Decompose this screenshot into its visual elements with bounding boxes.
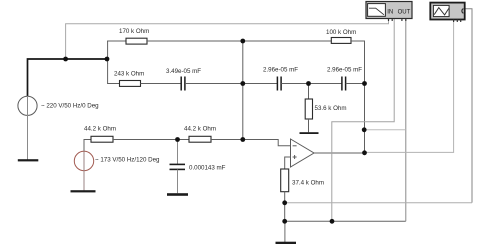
wire: Bode IN+ gray run to input bus	[66, 19, 389, 60]
svg-text:243 k Ohm: 243 k Ohm	[114, 71, 144, 78]
node C rail y139.5 x242.8	[240, 137, 245, 142]
wire: C4 bottom lead	[177, 170, 179, 194]
wire: C1 to C2	[185, 83, 277, 85]
wire: vertical node x=108 joining rails y41/y83.5	[107, 41, 109, 84]
wire: ground stub below rail	[284, 221, 286, 242]
svg-text:37.4 k Ohm: 37.4 k Ohm	[292, 179, 324, 186]
wire: 53.6k bottom lead	[308, 119, 310, 132]
wire: scope right terminal down	[465, 9, 472, 203]
node G output x364.5	[362, 150, 367, 155]
svg-text:44.2 k Ohm: 44.2 k Ohm	[184, 126, 216, 133]
wire: Bode OUT+ faint run to output node	[364, 129, 406, 131]
oscilloscope U3	[430, 3, 464, 22]
svg-text:0.000143 mF: 0.000143 mF	[189, 164, 226, 171]
node bus right	[105, 57, 110, 62]
svg-text:53.6 k Ohm: 53.6 k Ohm	[315, 105, 347, 112]
svg-text:~ 173 V/50 Hz/120 Deg: ~ 173 V/50 Hz/120 Deg	[95, 156, 160, 163]
wire: R6 to op-amp jog	[211, 140, 291, 146]
resistor R4 53.6 kOhm (vertical)	[305, 99, 312, 119]
wire: R7 bottom to ground rail	[284, 192, 286, 222]
ground G5	[276, 242, 297, 244]
svg-text:100 k Ohm: 100 k Ohm	[326, 29, 356, 36]
wire: C3 to feedback vertical	[346, 83, 365, 85]
wire: rail y=83.5 left	[107, 83, 119, 85]
wire: scope gray run to ground node	[285, 202, 472, 204]
wire: + input jog	[285, 157, 291, 169]
node J ground rail x284.7	[282, 219, 287, 224]
node F x364.5 y129.8	[362, 127, 367, 132]
svg-text:3.49e-05 mF: 3.49e-05 mF	[166, 68, 201, 75]
ground G3	[167, 193, 188, 196]
wire: rail y=83.5 to C1	[141, 83, 182, 85]
wire: vertical x=242.8	[242, 41, 244, 140]
resistor R2 100 kOhm	[331, 38, 351, 44]
svg-text:2.96e-05 mF: 2.96e-05 mF	[263, 66, 298, 73]
node D rail y83.5 x308.5	[306, 81, 311, 86]
capacitor C2 2.96e-05 mF	[276, 77, 278, 91]
wire: rail y=41 mid segment	[147, 40, 331, 42]
resistor R3 243 kOhm	[120, 81, 141, 87]
wire: V2 through source to ground	[83, 151, 85, 190]
op-amp U1	[291, 139, 315, 167]
node A rail y41 x242.8	[240, 39, 245, 44]
capacitor C3 2.96e-05 mF	[341, 77, 343, 91]
resistor R5 44.2 kOhm	[91, 136, 113, 142]
node bus-IN+	[63, 57, 68, 62]
wire: mid rail y=139.5 start corner from V2	[84, 140, 91, 152]
svg-text:2.96e-05 mF: 2.96e-05 mF	[327, 66, 362, 73]
svg-text:170 k Ohm: 170 k Ohm	[119, 28, 149, 35]
ground G1	[18, 159, 39, 161]
wire: 53.6k top lead	[308, 84, 310, 100]
ground G4	[300, 132, 319, 134]
Bode plotter U2	[366, 2, 412, 22]
node H rail139.5 x177.5	[175, 137, 180, 142]
wire: scope channel A to output	[365, 20, 454, 153]
svg-text:IN: IN	[387, 10, 393, 16]
svg-text:OUT: OUT	[398, 10, 411, 16]
resistor R7 37.4 kOhm (vertical)	[281, 169, 289, 192]
wire: V1 through source to ground	[27, 96, 29, 160]
svg-text:44.2 k Ohm: 44.2 k Ohm	[84, 126, 116, 133]
AC source V2 (red)	[74, 151, 93, 170]
node I scope-gnd x284.7	[282, 200, 287, 205]
node B rail y83.5 x242.8	[240, 81, 245, 86]
capacitor C4 0.000143 mF (horizontal plates)	[170, 163, 186, 165]
wire: op-amp output	[314, 152, 365, 154]
svg-text:~ 220 V/50 Hz/0 Deg: ~ 220 V/50 Hz/0 Deg	[41, 102, 99, 109]
wire: thick input bus y=59	[28, 59, 108, 96]
wire: Bode IN- gray run to ground rail	[332, 19, 394, 222]
wire: Bode OUT- vertical x=405.8	[405, 19, 407, 222]
wire: R5 to node	[113, 139, 189, 141]
capacitor C1 3.49e-05 mF	[180, 77, 182, 91]
wire: C4 top lead	[177, 140, 179, 165]
wire: 100k to feedback vertical	[351, 41, 365, 153]
resistor R1 170 kOhm	[126, 38, 147, 44]
resistor R6 44.2 kOhm	[189, 136, 211, 142]
wire: rail y=41 left segment	[107, 40, 126, 42]
AC source V1	[18, 96, 37, 115]
node K ground rail x332	[330, 219, 335, 224]
wire: bottom ground rail y=221.3	[285, 220, 406, 222]
wire: C2 to C3	[281, 83, 342, 85]
ground G2	[71, 190, 96, 192]
node E rail y83.5 x364.5	[362, 81, 367, 86]
